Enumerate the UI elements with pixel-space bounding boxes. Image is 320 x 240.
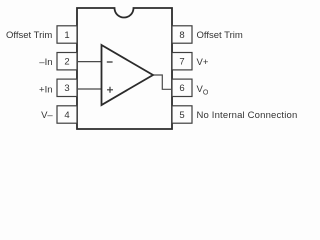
svg-text:+In: +In — [39, 85, 52, 96]
svg-text:7: 7 — [179, 57, 184, 68]
svg-text:No Internal Connection: No Internal Connection — [197, 110, 298, 121]
svg-text:V+: V+ — [197, 57, 209, 68]
svg-text:6: 6 — [179, 83, 184, 94]
svg-text:8: 8 — [179, 30, 184, 41]
svg-text:–In: –In — [39, 57, 52, 68]
svg-text:5: 5 — [179, 110, 184, 121]
svg-text:1: 1 — [64, 30, 69, 41]
svg-text:Offset Trim: Offset Trim — [6, 30, 52, 41]
svg-text:2: 2 — [64, 57, 69, 68]
svg-text:4: 4 — [64, 110, 69, 121]
svg-text:V–: V– — [41, 110, 53, 121]
svg-text:3: 3 — [64, 83, 69, 94]
svg-text:Offset Trim: Offset Trim — [197, 30, 243, 41]
